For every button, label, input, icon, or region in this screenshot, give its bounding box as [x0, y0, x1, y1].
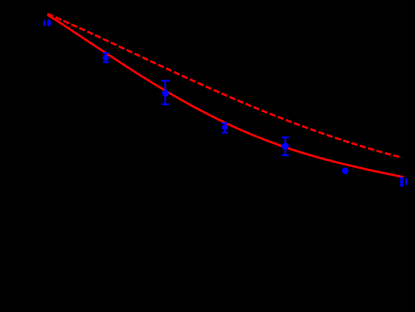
data point 1: marker [47, 19, 51, 26]
data point 7: error bar [400, 177, 403, 186]
data point 3: marker [162, 90, 169, 97]
data point 3: error bar [161, 81, 169, 105]
data point 7: marker [405, 178, 408, 185]
data point 4: error bar [222, 123, 228, 132]
data point 2: error bar [103, 53, 109, 62]
dashed red model curve [48, 14, 403, 158]
data point 5: marker [282, 143, 289, 150]
data point 4: marker [222, 124, 228, 130]
solid red fit curve [48, 15, 404, 177]
data point 2: marker [103, 55, 109, 61]
data point 5: error bar [282, 137, 289, 155]
data point 6: marker [342, 168, 349, 175]
data point 1: side bar [43, 20, 45, 26]
